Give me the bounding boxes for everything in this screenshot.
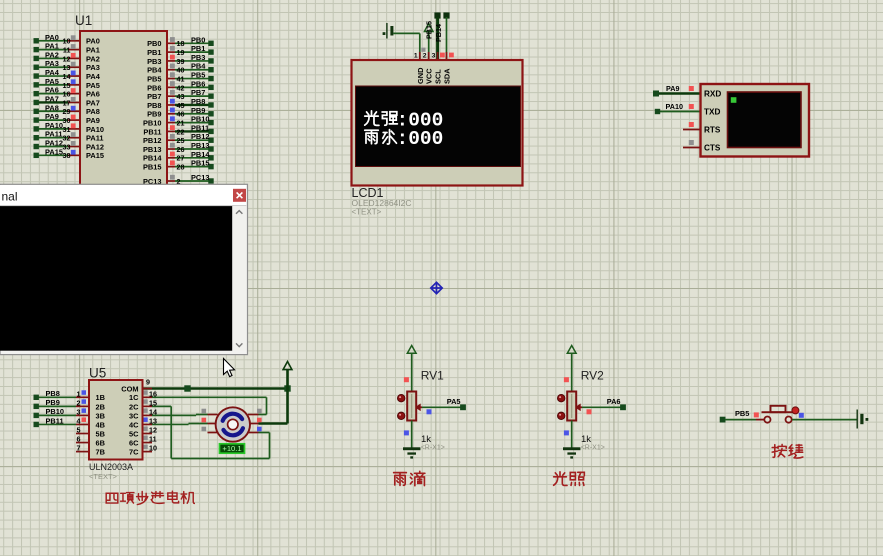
svg-text:9: 9	[146, 377, 150, 386]
svg-text:PA10: PA10	[45, 121, 63, 130]
svg-text:PA10: PA10	[666, 102, 683, 111]
svg-text:14: 14	[149, 407, 157, 416]
svg-text:SDA: SDA	[443, 68, 452, 84]
svg-text:nal: nal	[2, 190, 18, 204]
svg-text:TXD: TXD	[704, 108, 720, 117]
svg-text:PA4: PA4	[86, 72, 101, 81]
svg-text:5C: 5C	[129, 429, 139, 438]
svg-text:RV2: RV2	[581, 369, 604, 383]
svg-text:PB11: PB11	[46, 416, 64, 425]
svg-text:CTS: CTS	[704, 144, 721, 153]
svg-text:11: 11	[149, 435, 157, 444]
svg-text:PB10: PB10	[191, 115, 210, 124]
svg-text:PB11: PB11	[191, 123, 209, 132]
svg-text:13: 13	[63, 63, 71, 72]
svg-text:PB6: PB6	[147, 83, 161, 92]
svg-text:PB4: PB4	[147, 66, 162, 75]
svg-text:PA11: PA11	[45, 130, 63, 139]
svg-text:21: 21	[177, 118, 185, 127]
svg-text:7B: 7B	[96, 448, 105, 457]
svg-text:PB3: PB3	[147, 57, 161, 66]
svg-text:40: 40	[177, 66, 185, 75]
svg-text:PB5: PB5	[191, 71, 205, 80]
svg-text:PB9: PB9	[147, 110, 161, 119]
svg-text:RXD: RXD	[704, 90, 721, 99]
svg-text:PB3: PB3	[191, 53, 205, 62]
svg-text:PB13: PB13	[143, 145, 162, 154]
svg-text:4: 4	[77, 416, 81, 425]
svg-text::000: :000	[397, 128, 444, 150]
svg-text:PA9: PA9	[86, 116, 100, 125]
svg-text:41: 41	[177, 74, 185, 83]
svg-text:PA0: PA0	[45, 33, 59, 42]
svg-text:U5: U5	[89, 366, 106, 381]
svg-text:3: 3	[432, 53, 436, 60]
svg-text:PA3: PA3	[45, 59, 59, 68]
svg-text:PA9: PA9	[45, 112, 59, 121]
svg-text:PA6: PA6	[86, 90, 100, 99]
svg-text:25: 25	[177, 136, 185, 145]
svg-text:3C: 3C	[129, 411, 139, 420]
svg-text:<R-X1>: <R-X1>	[421, 445, 445, 452]
svg-text:14: 14	[63, 72, 71, 81]
svg-text:PB14: PB14	[434, 24, 443, 42]
svg-text:1k: 1k	[421, 434, 431, 445]
svg-text:PA10: PA10	[86, 125, 104, 134]
svg-text:30: 30	[63, 116, 71, 125]
svg-text:2: 2	[423, 53, 427, 60]
svg-text:+10.1: +10.1	[222, 444, 241, 453]
svg-text:PA5: PA5	[45, 77, 59, 86]
svg-text:12: 12	[63, 54, 71, 63]
svg-text:33: 33	[63, 142, 71, 151]
svg-text:PB8: PB8	[191, 97, 205, 106]
svg-text:PB14: PB14	[191, 150, 210, 159]
svg-text:PB13: PB13	[191, 141, 210, 150]
svg-text:7C: 7C	[129, 448, 139, 457]
svg-text:PA0: PA0	[86, 37, 100, 46]
svg-text:6: 6	[77, 435, 81, 444]
svg-text:19: 19	[177, 48, 185, 57]
svg-text:28: 28	[177, 163, 185, 172]
svg-text:<TEXT>: <TEXT>	[352, 208, 382, 217]
svg-text:PB7: PB7	[191, 88, 205, 97]
svg-text:17: 17	[63, 98, 71, 107]
svg-text:PA6: PA6	[45, 86, 59, 95]
svg-text:PB10: PB10	[46, 407, 65, 416]
svg-text:PB7: PB7	[147, 92, 161, 101]
svg-text:PB6: PB6	[191, 79, 205, 88]
svg-text:SCL: SCL	[434, 69, 443, 84]
svg-text:PA5: PA5	[86, 81, 100, 90]
svg-text:5B: 5B	[96, 429, 105, 438]
svg-text:PB0: PB0	[147, 39, 161, 48]
svg-text:RTS: RTS	[704, 126, 721, 135]
svg-text:1C: 1C	[129, 393, 139, 402]
svg-text:PB15: PB15	[425, 21, 434, 39]
svg-text:15: 15	[63, 81, 71, 90]
svg-text:3: 3	[77, 407, 81, 416]
svg-text:GND: GND	[416, 67, 425, 84]
svg-text:13: 13	[149, 416, 157, 425]
svg-text:RV1: RV1	[421, 369, 444, 383]
svg-text:PB15: PB15	[191, 159, 210, 168]
svg-text:U1: U1	[75, 13, 92, 28]
svg-text:PA3: PA3	[86, 63, 100, 72]
svg-text:42: 42	[177, 83, 185, 92]
svg-text:PB8: PB8	[46, 389, 60, 398]
svg-text:11: 11	[63, 46, 71, 55]
svg-text:PB5: PB5	[735, 409, 749, 418]
svg-text:2: 2	[77, 398, 81, 407]
svg-text:ULN2003A: ULN2003A	[89, 462, 133, 472]
svg-text:6C: 6C	[129, 438, 139, 447]
svg-text:PA6: PA6	[607, 397, 621, 406]
svg-text:PB1: PB1	[147, 48, 161, 57]
svg-text:PB15: PB15	[143, 163, 162, 172]
svg-text:PA15: PA15	[86, 151, 104, 160]
svg-text:PA2: PA2	[45, 50, 59, 59]
svg-text:31: 31	[63, 125, 71, 134]
svg-text:2C: 2C	[129, 402, 139, 411]
svg-text:32: 32	[63, 134, 71, 143]
svg-text:COM: COM	[121, 385, 138, 394]
svg-text:45: 45	[177, 101, 185, 110]
svg-text:12: 12	[149, 426, 157, 435]
svg-text:PB4: PB4	[191, 62, 206, 71]
svg-text:<TEXT>: <TEXT>	[89, 472, 118, 481]
svg-text:1: 1	[77, 389, 81, 398]
svg-text:<R-X1>: <R-X1>	[581, 445, 605, 452]
svg-text:7: 7	[77, 444, 81, 453]
svg-text:18: 18	[177, 39, 185, 48]
svg-text:PB1: PB1	[191, 44, 205, 53]
svg-text:PB12: PB12	[191, 132, 210, 141]
svg-text:PA15: PA15	[45, 147, 63, 156]
svg-text:29: 29	[63, 107, 71, 116]
svg-text:PA5: PA5	[447, 397, 461, 406]
svg-text:10: 10	[149, 444, 157, 453]
svg-text:PB11: PB11	[143, 127, 161, 136]
svg-text:PA8: PA8	[86, 107, 100, 116]
svg-text:43: 43	[177, 92, 185, 101]
svg-text:OLED12864I2C: OLED12864I2C	[352, 198, 412, 208]
svg-text:PB9: PB9	[46, 398, 60, 407]
svg-text:6B: 6B	[96, 438, 105, 447]
svg-text:PA4: PA4	[45, 68, 60, 77]
svg-text:PC13: PC13	[191, 173, 210, 182]
svg-text:1k: 1k	[581, 434, 591, 445]
svg-text:16: 16	[63, 90, 71, 99]
svg-text:PA7: PA7	[86, 98, 100, 107]
svg-text:5: 5	[77, 426, 81, 435]
svg-text:PA12: PA12	[45, 139, 63, 148]
svg-text:VCC: VCC	[425, 68, 434, 84]
svg-text:27: 27	[177, 154, 185, 163]
svg-text:PA2: PA2	[86, 54, 100, 63]
svg-text:PB0: PB0	[191, 35, 205, 44]
svg-text:2B: 2B	[96, 402, 105, 411]
svg-text:26: 26	[177, 145, 185, 154]
svg-text:1: 1	[414, 53, 418, 60]
svg-text:PA8: PA8	[45, 103, 59, 112]
svg-text:PA1: PA1	[45, 42, 59, 51]
svg-text:1B: 1B	[96, 393, 105, 402]
svg-text:PB10: PB10	[143, 118, 162, 127]
svg-text:PB5: PB5	[147, 74, 161, 83]
svg-text:10: 10	[63, 37, 71, 46]
svg-text:38: 38	[63, 151, 71, 160]
svg-text:PA1: PA1	[86, 46, 100, 55]
svg-text:PA12: PA12	[86, 142, 104, 151]
svg-text:PA9: PA9	[666, 84, 679, 93]
svg-text:PA7: PA7	[45, 94, 59, 103]
svg-text:46: 46	[177, 110, 185, 119]
svg-text:3B: 3B	[96, 411, 105, 420]
svg-text:PB8: PB8	[147, 101, 161, 110]
svg-text:4B: 4B	[96, 420, 105, 429]
svg-text:15: 15	[149, 398, 157, 407]
svg-text:16: 16	[149, 389, 157, 398]
svg-text:39: 39	[177, 57, 185, 66]
svg-text:PB9: PB9	[191, 106, 205, 115]
svg-text:4C: 4C	[129, 420, 139, 429]
svg-text:PA11: PA11	[86, 134, 104, 143]
svg-text:PB14: PB14	[143, 154, 162, 163]
svg-text:PB12: PB12	[143, 136, 162, 145]
svg-text:22: 22	[177, 127, 185, 136]
